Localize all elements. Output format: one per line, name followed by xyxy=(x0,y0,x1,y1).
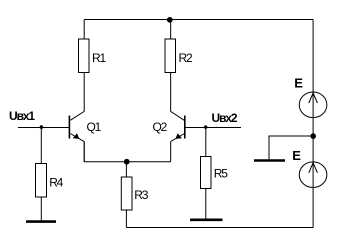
wire top rail xyxy=(84,19,313,21)
wire between sources xyxy=(312,118,314,162)
node top junction dot xyxy=(167,17,173,23)
wire to R4 xyxy=(40,128,42,164)
ground middle xyxy=(254,159,285,162)
svg-text:Uвх2: Uвх2 xyxy=(212,111,238,125)
wire bottom rail xyxy=(126,227,313,229)
svg-text:R4: R4 xyxy=(49,175,63,189)
svg-text:R2: R2 xyxy=(179,51,193,65)
transistor Q2 xyxy=(171,116,185,142)
resistor R4 xyxy=(36,164,47,198)
wire Q1 emitter vertical xyxy=(83,142,85,162)
node right junction dot xyxy=(310,133,316,139)
wire R3 to bottom rail xyxy=(125,210,127,228)
node emitter junction dot xyxy=(124,159,130,165)
wire to middle ground xyxy=(269,136,313,159)
wire R2 top stub xyxy=(170,20,172,40)
resistor R1 xyxy=(79,39,90,73)
wire right column bottom xyxy=(312,188,314,228)
wire Q1 base input xyxy=(18,127,69,129)
svg-text:R3: R3 xyxy=(134,188,148,202)
wire R1 to Q1 collector xyxy=(70,73,84,121)
ground under R4 xyxy=(26,220,56,223)
node base1 junction dot xyxy=(40,125,44,129)
wire R2 to Q2 collector xyxy=(171,73,185,121)
svg-text:E: E xyxy=(294,76,303,91)
wire Q2 emitter vertical xyxy=(170,142,172,162)
wire Q1 emitter xyxy=(83,142,85,162)
node base2 junction dot xyxy=(204,125,207,128)
svg-text:E: E xyxy=(292,148,301,163)
wire right column top xyxy=(312,20,314,93)
wire R1 top stub xyxy=(83,20,85,40)
source E1 xyxy=(299,92,327,118)
svg-text:R1: R1 xyxy=(92,51,106,65)
svg-text:R5: R5 xyxy=(214,167,228,181)
svg-text:Q1: Q1 xyxy=(87,120,102,134)
resistor R5 xyxy=(201,157,212,189)
resistor R3 xyxy=(121,177,132,210)
svg-text:Q2: Q2 xyxy=(153,120,168,134)
wire R5 to ground xyxy=(205,189,207,220)
resistor R2 xyxy=(165,39,176,73)
wire emitter rail xyxy=(84,161,170,163)
source E2 xyxy=(299,162,327,188)
wire Q2 base input xyxy=(186,127,241,129)
wire to R3 xyxy=(125,162,127,177)
transistor Q1 xyxy=(69,116,84,142)
wire to R5 xyxy=(205,128,207,157)
wire R4 to ground xyxy=(40,197,42,221)
ground under R5 xyxy=(190,219,223,222)
svg-text:Uвх1: Uвх1 xyxy=(9,109,35,123)
